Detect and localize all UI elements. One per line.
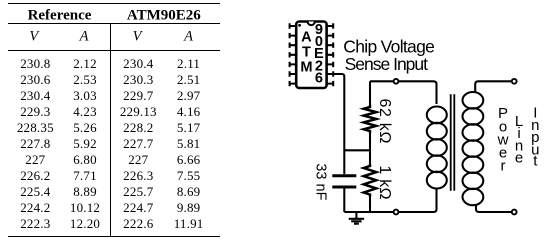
svg-text:e: e xyxy=(515,150,523,167)
svg-text:6: 6 xyxy=(315,71,323,87)
svg-text:Sense Input: Sense Input xyxy=(345,54,429,74)
svg-text:M: M xyxy=(300,59,312,75)
svg-text:1 kΩ: 1 kΩ xyxy=(376,165,393,200)
svg-text:62 kΩ: 62 kΩ xyxy=(376,98,393,144)
svg-text:33 nF: 33 nF xyxy=(313,163,329,200)
svg-text:T: T xyxy=(302,44,311,60)
svg-text:r: r xyxy=(501,158,506,175)
svg-text:A: A xyxy=(301,29,312,45)
